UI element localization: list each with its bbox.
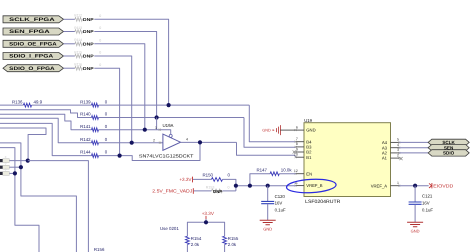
svg-text:DNP: DNP <box>83 29 94 34</box>
node rail junction <box>204 220 208 224</box>
resistor R114 DNP 0 <box>74 38 101 46</box>
svg-text:R154: R154 <box>191 236 202 241</box>
svg-text:DNP: DNP <box>83 17 94 22</box>
svg-text:R142: R142 <box>80 137 91 142</box>
svg-text:R136: R136 <box>12 99 23 104</box>
wire stubA to node A <box>10 160 28 162</box>
wire row3 to U19A OE <box>99 130 171 135</box>
svg-text:SEN_FPGA: SEN_FPGA <box>9 29 50 35</box>
resistor R112 DNP 0 <box>74 14 101 22</box>
svg-text:DNP: DNP <box>83 66 94 71</box>
ground below C121 <box>407 222 423 233</box>
svg-text:DNP: DNP <box>213 189 222 194</box>
svg-text:A1: A1 <box>382 156 388 161</box>
wire edge route to node A <box>0 128 46 161</box>
svg-text:4: 4 <box>397 143 399 147</box>
svg-text:R156: R156 <box>94 247 105 252</box>
wire SCLK_FPGA to R112 <box>64 18 75 20</box>
svg-text:EIOVDD: EIOVDD <box>433 184 454 189</box>
svg-text:8: 8 <box>296 142 298 146</box>
wire R153 to node <box>223 190 236 192</box>
capacitor C120 16V 0.1uF <box>261 194 286 213</box>
svg-text:R144: R144 <box>80 149 91 154</box>
resistor R155 2.0k <box>223 236 239 247</box>
svg-text:2.0k: 2.0k <box>191 242 200 247</box>
node row4-SDIO_I junction <box>130 141 134 145</box>
svg-text:R115: R115 <box>74 50 82 54</box>
resistor R140 0 <box>80 112 108 120</box>
pin 3 A2 of U19 <box>382 148 400 155</box>
resistor R147 10.0k <box>257 167 293 175</box>
svg-text:GND: GND <box>262 129 271 133</box>
svg-text:R113: R113 <box>74 26 82 30</box>
wire edge route to node B <box>0 143 76 252</box>
wire R112 down to row 1 <box>82 19 168 105</box>
svg-text:DNP: DNP <box>83 41 94 46</box>
svg-text:Use 0201: Use 0201 <box>160 226 179 231</box>
node row2-SEN junction <box>155 115 159 119</box>
wire C121 to ground <box>414 205 416 223</box>
wire node down to C121 <box>414 186 416 202</box>
svg-text:10: 10 <box>294 153 298 157</box>
wire SEN node down to U19A pin1 row <box>156 118 158 130</box>
pin 11 VREF_B of U19 <box>294 181 323 188</box>
node row5-SDIO_O junction <box>118 154 122 158</box>
wire output down to B1 <box>237 142 296 156</box>
svg-text:R114: R114 <box>74 38 82 42</box>
wire A2 to SDIO <box>399 152 428 154</box>
svg-text:EN: EN <box>306 171 312 176</box>
svg-text:0.1uF: 0.1uF <box>422 207 433 212</box>
pin 8 B3 of U19 <box>295 142 312 149</box>
resistor R150 0 <box>203 173 231 182</box>
svg-text:DNP: DNP <box>83 54 94 59</box>
node row3-SDIO_OE junction <box>143 128 147 132</box>
wire R113 down to row 2 <box>82 32 156 118</box>
wire row5 jog under U19A <box>99 142 201 160</box>
svg-text:VREF_B: VREF_B <box>306 183 322 188</box>
wire left edge row3 staircase <box>0 114 92 130</box>
pin 2 A1 of U19 <box>382 153 400 160</box>
svg-text:VREF_A: VREF_A <box>371 183 387 188</box>
wire U19A output <box>181 141 237 143</box>
wire C120 to ground <box>267 204 269 220</box>
wire SDIO_O_FPGA to R116 <box>64 67 75 69</box>
annotation ellipse around VREF_B <box>286 178 336 194</box>
wire left edge row2 staircase <box>0 110 92 118</box>
wire left edge row5 staircase <box>0 123 92 155</box>
wire R150 to node <box>223 179 236 191</box>
wire SDIO_OE_FPGA to R114 <box>64 43 75 45</box>
wire A4 to SCLK <box>399 141 428 143</box>
port SEN_FPGA <box>3 28 64 35</box>
svg-text:7: 7 <box>296 137 298 141</box>
power +3.3V rail <box>202 211 215 219</box>
no-connect B2 <box>293 150 296 153</box>
resistor R116 DNP 0 <box>74 63 101 71</box>
svg-text:+3.3V: +3.3V <box>202 211 215 216</box>
svg-text:0: 0 <box>99 51 101 55</box>
svg-text:12: 12 <box>294 169 298 173</box>
svg-text:GND: GND <box>263 227 272 232</box>
no-connect A1 <box>399 157 402 160</box>
wire node to VREF_B <box>236 185 296 187</box>
svg-text:R147: R147 <box>257 167 268 172</box>
wire row1 down to B4 <box>249 105 295 142</box>
wire A3 to SEN <box>399 147 428 149</box>
wire row4 to U19A input <box>99 142 163 144</box>
resistor R136 49.9 <box>12 99 43 107</box>
svg-text:5: 5 <box>397 138 399 142</box>
node U19A output junction <box>198 140 202 144</box>
svg-text:SDIO_I_FPGA: SDIO_I_FPGA <box>9 54 53 60</box>
svg-text:GND: GND <box>411 229 420 234</box>
svg-text:0: 0 <box>99 38 101 42</box>
IC U19 body <box>304 118 391 205</box>
svg-text:B1: B1 <box>306 155 312 160</box>
resistor R141 0 <box>80 124 108 132</box>
wire row2 to corner <box>99 117 245 119</box>
svg-text:SCLK_FPGA: SCLK_FPGA <box>9 17 55 23</box>
svg-text:6: 6 <box>296 125 298 129</box>
wire R114 down to row 3 <box>82 44 144 130</box>
wire left edge row1 <box>0 104 23 106</box>
pin 5 A4 of U19 <box>382 138 400 145</box>
svg-text:R141: R141 <box>80 124 91 129</box>
svg-text:U19A: U19A <box>163 123 174 128</box>
wire R136 to R139 <box>32 104 92 106</box>
label Use 0201 <box>160 226 179 231</box>
svg-text:16V: 16V <box>275 201 283 206</box>
wire edge route to node C <box>0 148 39 252</box>
resistor R144 0 <box>80 149 108 157</box>
svg-text:9: 9 <box>296 147 298 151</box>
wire +3.3V rail <box>187 219 224 236</box>
svg-text:C121: C121 <box>422 194 433 199</box>
svg-text:SDIO_O_FPGA: SDIO_O_FPGA <box>9 66 55 72</box>
wire R154 to bottom <box>186 244 188 252</box>
resistor stub at left edge 3 <box>0 168 9 176</box>
svg-text:49.9: 49.9 <box>34 99 43 104</box>
svg-text:1: 1 <box>155 126 157 130</box>
resistor stub at left edge 2 <box>0 161 9 169</box>
svg-text:R112: R112 <box>74 14 82 18</box>
svg-text:SDIO: SDIO <box>443 151 455 156</box>
svg-text:0: 0 <box>99 63 101 67</box>
resistor R115 DNP 0 <box>74 50 101 58</box>
svg-text:R140: R140 <box>80 112 91 117</box>
svg-text:3: 3 <box>397 148 399 152</box>
svg-text:2.5V_FMC_VADJ: 2.5V_FMC_VADJ <box>152 189 192 194</box>
wire node A right and down to bottom <box>28 161 89 252</box>
resistor R153 DNP <box>206 185 230 194</box>
wire node to R147 <box>250 174 270 186</box>
svg-text:C120: C120 <box>275 194 286 199</box>
node A <box>26 159 30 163</box>
node VREF_A junction <box>413 184 417 188</box>
wire R147 to EN <box>279 173 295 175</box>
svg-text:2: 2 <box>153 138 155 142</box>
wire row1 to corner <box>99 104 250 106</box>
svg-text:SDIO_OE_FPGA: SDIO_OE_FPGA <box>9 42 57 48</box>
port SDIO_I_FPGA <box>3 53 64 60</box>
pin 7 B4 of U19 <box>295 137 312 144</box>
node R147 junction <box>248 184 252 188</box>
svg-text:LSF0204RUTR: LSF0204RUTR <box>305 199 341 205</box>
node C120 junction <box>266 184 270 188</box>
svg-text:U19: U19 <box>304 118 312 123</box>
svg-text:0: 0 <box>228 186 230 190</box>
label R156 <box>94 247 105 252</box>
port SCLK <box>428 139 469 145</box>
node C <box>13 171 17 175</box>
node B <box>19 165 23 169</box>
pin 6 GND of U19 <box>295 125 316 132</box>
svg-text:2.0k: 2.0k <box>228 242 237 247</box>
ground below C120 <box>260 220 276 231</box>
svg-text:0: 0 <box>99 14 101 18</box>
svg-text:R150: R150 <box>203 173 214 178</box>
pin 10 B1 of U19 <box>294 153 312 160</box>
wire VADJ to R153 <box>194 190 212 192</box>
resistor R142 0 <box>80 137 108 145</box>
svg-text:4: 4 <box>186 138 188 142</box>
port SDIO <box>428 150 469 156</box>
port SEN <box>428 145 469 151</box>
svg-text:SN74LVC1G125DCKT: SN74LVC1G125DCKT <box>139 154 194 159</box>
wire stubB to node B <box>10 166 21 168</box>
op-amp U19A buffer triangle <box>153 123 188 151</box>
wire VREF_A to node <box>399 185 429 187</box>
capacitor C121 16V 0.1uF <box>409 194 434 213</box>
svg-text:16V: 16V <box>422 200 430 205</box>
svg-text:1: 1 <box>397 181 399 185</box>
pin 9 B2 of U19 <box>295 147 312 154</box>
svg-text:+3.3V: +3.3V <box>179 177 192 182</box>
power 2.5V_FMC_VADJ <box>152 188 193 194</box>
wire R115 down to row 4 <box>82 56 131 143</box>
wire node down to C120 <box>267 186 269 201</box>
svg-text:A4: A4 <box>382 140 388 145</box>
resistor stub at left edge 1 <box>0 155 9 163</box>
node R150 junction <box>234 184 238 188</box>
port SCLK_FPGA <box>3 16 64 23</box>
wire stubC to node C <box>10 172 15 174</box>
pin 4 A3 of U19 <box>382 143 400 150</box>
wire left edge row4 staircase <box>0 118 92 142</box>
node row1-SCLK junction <box>167 103 171 107</box>
wire row2 down to B3 <box>244 118 296 148</box>
ground at U19 pin 6 <box>262 125 295 135</box>
power +3.3V at R150 <box>179 177 192 183</box>
resistor R139 0 <box>80 99 108 107</box>
wire R116 down to row 5 <box>82 68 119 155</box>
svg-text:R116: R116 <box>74 63 82 67</box>
resistor R154 2.0k <box>186 236 202 247</box>
svg-text:0: 0 <box>99 26 101 30</box>
svg-text:10.0k: 10.0k <box>281 167 293 172</box>
pin 12 EN of U19 <box>294 169 312 176</box>
port SDIO_O_FPGA <box>3 65 64 72</box>
port SDIO_OE_FPGA <box>3 40 64 47</box>
wire SDIO_I_FPGA to R115 <box>64 55 75 57</box>
svg-text:R155: R155 <box>228 236 239 241</box>
power EIOVDD <box>429 183 454 189</box>
wire R155 to bottom <box>224 244 226 252</box>
svg-text:0.1uF: 0.1uF <box>275 208 286 213</box>
pin 1 VREF_A of U19 <box>371 181 400 188</box>
svg-text:2: 2 <box>397 153 399 157</box>
svg-text:R139: R139 <box>80 99 91 104</box>
resistor R113 DNP 0 <box>74 26 101 34</box>
wire SEN_FPGA to R113 <box>64 31 75 33</box>
label SN74LVC1G125DCKT <box>139 154 194 159</box>
wire +3.3V to R150 <box>193 178 211 180</box>
svg-text:GND: GND <box>306 128 315 133</box>
